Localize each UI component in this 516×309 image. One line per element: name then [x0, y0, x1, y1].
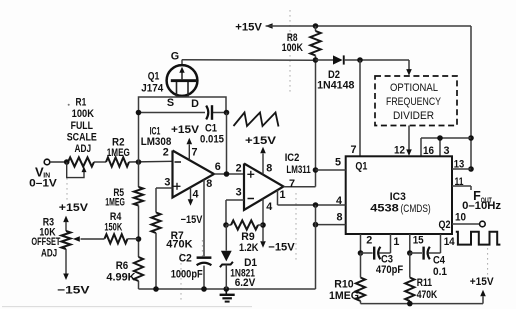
svg-text:10: 10 [455, 211, 466, 223]
svg-text:+15V: +15V [59, 202, 89, 214]
svg-text:Q1: Q1 [148, 70, 160, 82]
svg-text:FREQUENCY: FREQUENCY [386, 96, 441, 108]
svg-text:8: 8 [206, 178, 212, 190]
svg-text:1.2K: 1.2K [239, 242, 259, 254]
svg-text:2: 2 [366, 235, 372, 247]
svg-text:3: 3 [236, 187, 242, 199]
svg-text:+15V: +15V [235, 21, 263, 33]
svg-text:1N4148: 1N4148 [317, 80, 354, 92]
svg-text:−15V: −15V [57, 285, 90, 297]
svg-text:2: 2 [163, 146, 169, 158]
svg-text:0.1: 0.1 [433, 266, 447, 278]
svg-text:1MEG: 1MEG [105, 197, 125, 209]
svg-text:G: G [171, 50, 179, 62]
svg-text:ADJ: ADJ [41, 247, 57, 259]
svg-text:8: 8 [266, 162, 272, 174]
svg-text:0–1V: 0–1V [29, 178, 58, 190]
svg-text:1000pF: 1000pF [171, 268, 203, 280]
svg-text:FULL: FULL [71, 120, 94, 132]
svg-text:Q1: Q1 [355, 161, 367, 173]
svg-text:100K: 100K [72, 108, 94, 120]
svg-text:S: S [167, 97, 174, 109]
svg-text:0.015: 0.015 [200, 133, 224, 145]
svg-text:6: 6 [215, 161, 221, 173]
svg-text:5: 5 [335, 156, 341, 168]
svg-text:OFFSET: OFFSET [31, 236, 60, 248]
svg-text:7: 7 [191, 146, 197, 158]
svg-text:ADJ: ADJ [75, 143, 92, 155]
svg-text:4.99K: 4.99K [106, 272, 135, 284]
svg-text:LM311: LM311 [286, 164, 310, 176]
svg-text:1MEG: 1MEG [107, 147, 130, 159]
svg-text:3: 3 [164, 176, 170, 188]
svg-text:IC2: IC2 [285, 152, 300, 164]
svg-text:(CMDS): (CMDS) [401, 203, 431, 215]
svg-text:OPTIONAL: OPTIONAL [390, 82, 438, 94]
svg-text:+15V: +15V [245, 135, 277, 147]
svg-text:−15V: −15V [268, 242, 295, 254]
svg-text:14: 14 [444, 236, 455, 248]
svg-text:J174: J174 [141, 83, 163, 95]
svg-text:R11: R11 [417, 277, 432, 289]
svg-text:IC3: IC3 [390, 191, 406, 203]
svg-text:12: 12 [394, 144, 405, 156]
svg-text:DIVIDER: DIVIDER [393, 110, 434, 122]
svg-text:+15V: +15V [171, 124, 200, 136]
svg-text:3: 3 [443, 145, 449, 157]
svg-text:SCALE: SCALE [67, 132, 97, 144]
svg-text:150K: 150K [104, 222, 122, 234]
svg-text:4: 4 [336, 195, 342, 207]
svg-text:1: 1 [279, 189, 285, 201]
svg-text:470K: 470K [166, 239, 192, 251]
svg-text:7: 7 [350, 144, 356, 156]
svg-text:2: 2 [236, 162, 242, 174]
svg-text:4: 4 [266, 201, 272, 213]
svg-text:4538: 4538 [370, 202, 399, 214]
svg-text:R6: R6 [116, 260, 129, 272]
svg-text:C2: C2 [179, 253, 192, 265]
svg-text:13: 13 [454, 158, 465, 170]
svg-text:R1: R1 [76, 97, 87, 109]
svg-text:100K: 100K [282, 42, 304, 54]
svg-text:4: 4 [192, 188, 198, 200]
svg-text:11: 11 [455, 176, 464, 188]
svg-text:R10: R10 [334, 278, 353, 290]
svg-text:D: D [191, 98, 199, 110]
svg-text:1: 1 [393, 236, 399, 248]
svg-text:7: 7 [289, 178, 295, 190]
svg-text:470K: 470K [417, 289, 438, 301]
svg-text:0–10Hz: 0–10Hz [462, 200, 502, 212]
svg-text:+15V: +15V [470, 276, 495, 288]
svg-text:15: 15 [413, 235, 424, 247]
svg-text:Q2: Q2 [439, 219, 451, 231]
svg-text:8: 8 [336, 211, 342, 223]
svg-text:6.2V: 6.2V [235, 277, 256, 289]
svg-text:1MEG: 1MEG [329, 290, 359, 302]
svg-text:C4: C4 [433, 255, 445, 267]
svg-text:470pF: 470pF [376, 264, 404, 276]
svg-text:16: 16 [423, 145, 434, 157]
svg-text:−15V: −15V [181, 214, 203, 226]
